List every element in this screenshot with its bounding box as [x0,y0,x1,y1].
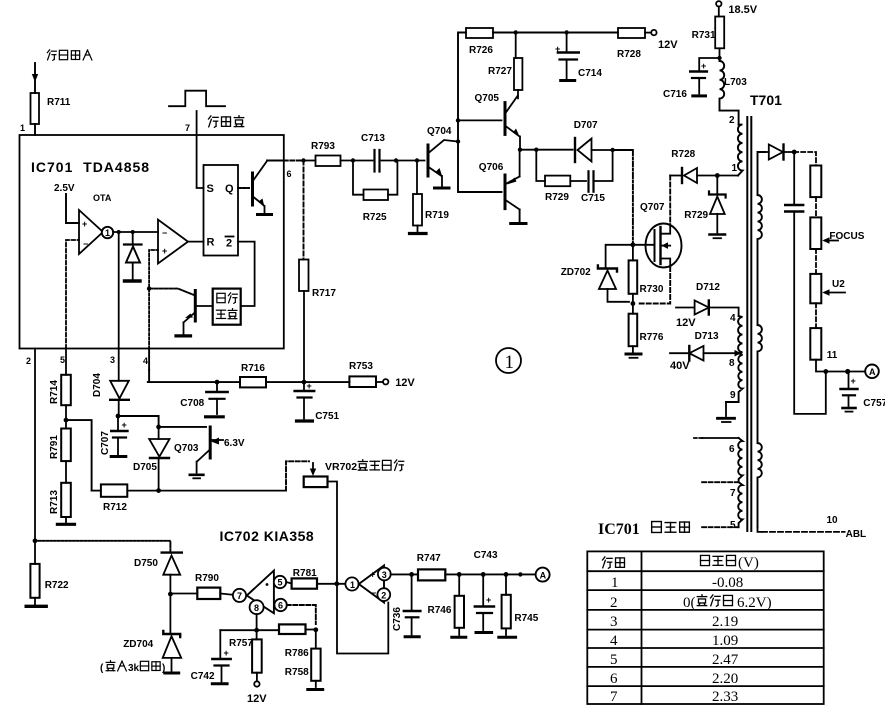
node pin6 junction [301,158,305,162]
ground internal clamp [125,279,141,282]
svg-text:C708: C708 [180,398,204,409]
node R745 junction [504,572,509,577]
svg-text:1: 1 [350,580,355,590]
wire HV node to divider dashed [794,152,816,166]
wire pin 5 to R714 [65,349,67,375]
node FOCUS arrow and label [825,240,838,242]
svg-text:8: 8 [254,603,259,613]
node C714 top [564,30,568,34]
svg-text:ABL: ABL [846,529,867,540]
resistor R745 [505,574,507,635]
svg-text:R725: R725 [363,212,387,223]
op-amp U2a pin 6 circle [274,599,286,611]
ground ZD704 [165,672,179,675]
svg-text:C757: C757 [863,398,885,409]
svg-text:+: + [701,61,706,71]
table IC701 voltages title [598,521,689,538]
node L703 top [717,56,721,60]
op-amp U2a pin 5 circle [274,576,286,588]
resistor focus divider 3 G2 [810,274,821,303]
node 1 output circle of OTA [102,227,113,238]
svg-text:ZD704: ZD704 [123,639,153,650]
svg-text:6: 6 [287,169,292,179]
svg-text:Q707: Q707 [640,202,665,213]
svg-text:C716: C716 [663,89,687,100]
capacitor C713 [375,150,380,172]
svg-text:C713: C713 [361,133,385,144]
node R781 right junction [334,581,339,586]
node R725 branch left [351,158,355,162]
wire pin 6 stub [702,437,738,439]
wire pin 10 ABL [758,527,763,532]
svg-text:R791: R791 [49,435,60,459]
svg-text:R726: R726 [469,45,493,56]
resistor R711 [31,93,71,124]
wire OTA - input (from pin 5) [66,240,79,349]
svg-text:40V: 40V [670,360,690,372]
svg-text:ZD702: ZD702 [561,267,591,278]
wire 2.5V to OTA + input [66,194,79,223]
ground R776 [626,354,641,358]
node junction to clamp diode [131,230,135,234]
winding secondary coil lower [758,443,762,527]
resistor R728 top [617,28,645,60]
node C751 junction [302,380,307,385]
svg-text:Q: Q [225,183,234,195]
resistor R729 [536,150,545,181]
winding primary 8-9 [726,353,743,402]
svg-text:+: + [307,381,312,391]
pulse waveform 行驱动 [169,91,225,107]
inductor L703 [720,58,739,125]
resistor R786 [279,624,309,659]
transistor Q driver internal [253,161,268,206]
wire pin 6 collector out [267,160,284,162]
wire R716 to R753 [266,381,349,383]
svg-text:R729: R729 [545,192,569,203]
wire input to R711 [34,63,36,93]
ground R722 [26,605,46,608]
wire comparator out to R of flip-flop [188,241,204,243]
potentiometer VR702 [304,477,328,488]
capacitor C716 [690,58,719,94]
node Q704 collector to rail [456,139,460,143]
resistor R791 [49,429,71,462]
svg-text:R: R [207,237,215,249]
node 行驱动 label [209,116,244,128]
svg-text:12V: 12V [676,317,696,329]
resistor R717 [303,161,305,260]
node G2 arrow and label [825,292,845,294]
svg-text:2: 2 [610,595,618,611]
resistor R757 [229,638,262,673]
svg-text:A: A [540,570,547,580]
ground R713 [57,523,74,526]
svg-text:3: 3 [382,570,387,580]
svg-text:D704: D704 [92,373,103,397]
capacitor C708 [206,382,227,414]
node pin3 junction [117,230,121,234]
capacitor C707 [111,416,127,455]
capacitor C736 [404,574,421,634]
wire midpoint to D707 [520,149,573,151]
svg-text:C715: C715 [581,193,605,204]
node A terminal circle [865,365,879,379]
svg-text:5: 5 [610,652,618,668]
svg-text:R716: R716 [241,363,265,374]
node 12V terminal top [645,30,657,35]
resistor R758 [315,630,317,649]
capacitor HV filter [785,152,826,414]
ground discharge transistor [176,334,191,337]
svg-text:R746: R746 [428,605,452,616]
svg-text:+: + [162,246,167,256]
svg-text:R753: R753 [349,361,373,372]
op-amp U2b triangle [359,566,384,603]
svg-text:R728: R728 [617,49,641,60]
capacitor C751 [295,382,314,418]
svg-text:R745: R745 [514,613,538,624]
svg-text:0(: 0( [683,595,696,611]
wire feedback loop U2b [337,584,388,654]
svg-text:C736: C736 [392,607,403,631]
svg-text:Q704: Q704 [427,126,452,137]
node wire junction [518,572,522,576]
node D707 right [610,148,614,152]
transformer core [747,117,751,531]
table header 引脚 [603,557,625,568]
wire mid bus pin4 to 12V [148,381,240,383]
wire Q707 source down dashed [637,267,671,304]
node Q705/Q706 midpoint [518,148,522,152]
op-amp OTA [79,210,103,254]
svg-text:C707: C707 [100,431,111,455]
svg-text:): ) [162,663,165,674]
svg-text:3k: 3k [128,663,140,674]
diode D705 [149,427,169,491]
resistor R776 [632,304,634,353]
op-amp U2b pin 3 circle [378,568,391,581]
winding secondary coil upper [758,195,762,325]
svg-text:FOCUS: FOCUS [829,231,864,242]
svg-text:7: 7 [185,123,190,133]
node Q705 base [456,118,460,122]
node 12V terminal bottom [254,673,259,687]
svg-text:1: 1 [105,228,110,238]
svg-text:IC702 KIA358: IC702 KIA358 [220,528,315,544]
svg-text:R776: R776 [640,332,664,343]
svg-text:5: 5 [730,520,736,531]
resistor R730 [632,245,634,304]
svg-text:1: 1 [505,352,515,373]
wire R793 to C713 [341,160,373,162]
op-amp U2a pin 7 circle [233,589,246,602]
svg-text:+: + [224,648,229,658]
wire node to Q703 base [118,416,206,427]
op-amp U IC701 box [20,135,284,349]
resistor R716 [240,363,266,387]
svg-text:R728: R728 [671,149,695,160]
diode secondary rectifier [765,145,794,160]
node 行频输入 input label [47,50,92,60]
table frame [587,551,823,704]
svg-text:6: 6 [729,444,735,455]
resistor R727 [516,33,518,101]
wire pin 5 stub [702,526,739,528]
resistor focus divider 4 [810,328,821,360]
svg-text:(V): (V) [738,555,759,571]
svg-text:−: − [162,228,167,238]
svg-text:Q703: Q703 [174,443,199,454]
svg-text:R714: R714 [49,380,60,404]
wire C742 branch [220,629,279,631]
op-amp U2b pin 1 circle [345,577,358,590]
svg-text:R781: R781 [293,568,317,579]
svg-text:-0.08: -0.08 [712,575,743,591]
ground Q703 [190,475,204,479]
svg-text:1: 1 [732,163,738,174]
node R746 junction [457,572,462,577]
ground driver transistor [258,213,272,216]
node 12V terminal mid [376,379,388,384]
node R758 top junction [313,627,318,632]
capacitor C742 [212,630,230,681]
svg-text:R719: R719 [425,210,449,221]
node R729 branch left [534,148,538,152]
svg-text:R757: R757 [229,638,253,649]
wire 12V rail top [493,32,618,34]
svg-text:5: 5 [278,578,283,588]
wire pin 7 to S input [197,111,204,188]
wire pin2 node to D750 dotted [35,541,170,552]
wire R711 to IC701 pin 1 [34,124,36,135]
node R727 top [514,30,518,34]
svg-text:+: + [370,570,375,580]
ground C716 [693,94,706,97]
svg-text:R747: R747 [417,553,441,564]
wire base rail Q705 Q706 [458,33,502,193]
wire C713 to Q704 base [382,160,425,162]
wire pin 3 internal [118,232,120,349]
winding secondary coil middle [758,325,762,443]
op-amp U2b pin 2 circle [377,588,390,601]
svg-text:2.5V: 2.5V [54,183,75,194]
svg-text:VR702: VR702 [325,461,357,473]
svg-text:Q706: Q706 [479,162,504,173]
ground R729 zener [710,235,726,239]
svg-text:+: + [555,44,560,54]
wire gate Q707 [633,244,655,246]
svg-text:5: 5 [60,355,65,365]
ground R758 [308,688,323,691]
wire node to R757 [256,630,258,639]
svg-text:4: 4 [143,356,148,366]
node circled 1 page marker [496,348,521,373]
wire pin 1 to node [717,175,738,177]
node R714 bottom junction [64,418,69,423]
resistor R731 [692,17,725,49]
svg-text:2: 2 [729,115,735,126]
node HV rectifier out [792,150,797,155]
svg-text:C742: C742 [191,671,215,682]
wire Q output to driver transistor [238,187,249,189]
resistor R793 [311,141,341,166]
winding primary 4-8 [738,316,742,353]
ground C757 [843,408,856,412]
node C736 junction [409,572,414,577]
resistor focus divider 2 FOCUS [810,217,821,249]
wire pin 8 down [256,614,258,630]
svg-text:11: 11 [827,350,838,361]
node divider bottom left [823,369,828,374]
svg-text:R712: R712 [103,502,127,513]
diode D704 [110,381,129,416]
svg-text:C743: C743 [474,550,498,561]
svg-text:R758: R758 [285,667,309,678]
node D705 bottom junction [156,488,161,493]
op-amp comparator U1b [158,220,188,264]
flip-flop U1c S-R latch [204,165,239,256]
resistor R726 [466,28,493,56]
ground Q704 emitter [435,187,450,190]
node C757 top [845,369,850,374]
svg-text:R727: R727 [488,66,512,77]
wire pin4 node to discharge transistor base [149,289,195,296]
resistor R722 [34,541,36,604]
resistor R725 parallel [353,161,397,195]
svg-text:R713: R713 [49,490,60,514]
svg-text:OTA: OTA [93,193,112,203]
wire Q-bar to discharge box [238,242,255,306]
node D705 top [156,425,161,430]
node pin4 branch [147,286,151,290]
svg-text:2.19: 2.19 [712,614,738,630]
wire pin3 to R747 [391,573,418,575]
node D750 bottom junction [168,592,173,597]
resistor R712 [92,490,101,492]
wire pin4 internal dashed to comparator + [149,250,158,349]
svg-text:+: + [851,376,856,386]
svg-text:Q705: Q705 [475,93,500,104]
svg-text:R786: R786 [285,648,309,659]
wire pin 6 feedback dashed [287,605,316,624]
wire up to VR702 wiper dashed [286,461,309,490]
node pin2 branch [33,538,38,543]
capacitor C715 [570,150,612,192]
svg-text:6.3V: 6.3V [224,438,245,449]
arrow on input wire [32,74,38,82]
svg-text:R731: R731 [692,30,716,41]
svg-text:2: 2 [381,590,386,600]
op-amp U2a pin 8 circle [250,600,264,614]
node (实为3k电阻) note [100,661,165,674]
node VR702 wiper arrow [312,463,314,471]
node C743 junction [481,572,486,577]
winding primary 2-1 [738,125,743,176]
resistor R746 [458,574,460,635]
svg-text:2.47: 2.47 [712,652,739,668]
svg-text:18.5V: 18.5V [728,4,757,16]
svg-text:T701: T701 [750,92,782,108]
winding secondary top lead [758,152,765,195]
node C707 junction [116,414,121,419]
svg-text:IC701 TDA4858: IC701 TDA4858 [31,159,150,175]
winding primary 7-5 [738,482,742,527]
ground R719 [410,232,427,235]
wire R712 to VR702 [127,490,286,492]
svg-text:D712: D712 [696,282,720,293]
svg-text:R717: R717 [312,288,336,299]
svg-text:D750: D750 [134,558,158,569]
svg-text:7: 7 [610,689,618,705]
svg-text:6.2V): 6.2V) [737,595,772,611]
wire VR702 right lead down [328,482,338,585]
svg-text:R730: R730 [640,284,664,295]
wire R747 to A [445,573,535,575]
node R757 top junction [254,628,259,633]
transistor Q discharge internal [184,291,213,335]
wire D707 to gate dash-dot [632,150,634,245]
svg-text:4: 4 [730,313,736,324]
svg-text:A: A [869,367,876,377]
svg-text:7: 7 [730,488,736,499]
svg-text:2.33: 2.33 [712,689,738,705]
wire pin6 to node [284,160,304,162]
svg-text:12V: 12V [247,693,267,705]
svg-text:6: 6 [278,601,283,611]
resistor R753 [349,361,376,387]
wire divider bottom [816,360,865,372]
svg-text:9: 9 [730,390,736,401]
node pin1 junction [715,173,720,178]
svg-text:+: + [82,219,87,229]
wire OTA output to comparator [113,231,158,233]
node A terminal circle bottom [536,568,550,582]
svg-text:4: 4 [610,633,618,649]
winding primary 6-7 [738,438,742,482]
wire node to R793 [304,160,316,162]
svg-text:6: 6 [610,671,618,687]
resistor R781 [286,582,291,584]
node R730 bottom [631,301,636,306]
svg-text:R729: R729 [684,210,708,221]
op-amp 恒流放电 discharge box [213,289,241,325]
svg-text:R722: R722 [45,580,69,591]
wire pin 2 down [34,349,36,541]
svg-text:IC701: IC701 [598,521,640,538]
node R719 branch [415,158,419,162]
svg-text:−: − [83,239,88,249]
svg-text:D707: D707 [574,120,598,131]
svg-text:R793: R793 [311,141,335,152]
wire pin 7 stub [702,481,739,483]
svg-text:1: 1 [20,123,25,133]
svg-text:U2: U2 [832,279,845,290]
capacitor C714 [558,33,579,79]
wire R790 to pin 7 circle [220,594,233,595]
ground pin 9 [718,402,735,422]
svg-text:12V: 12V [395,377,415,389]
svg-text:S: S [207,183,214,195]
svg-text:+: + [122,420,127,430]
node gate junction [631,242,636,247]
svg-text:L703: L703 [724,77,747,88]
resistor R713 [49,483,71,517]
diode internal clamp [124,232,142,279]
svg-text:12V: 12V [658,39,678,51]
wire pin 3 to D704 [118,349,120,381]
node C708 junction [215,380,220,385]
